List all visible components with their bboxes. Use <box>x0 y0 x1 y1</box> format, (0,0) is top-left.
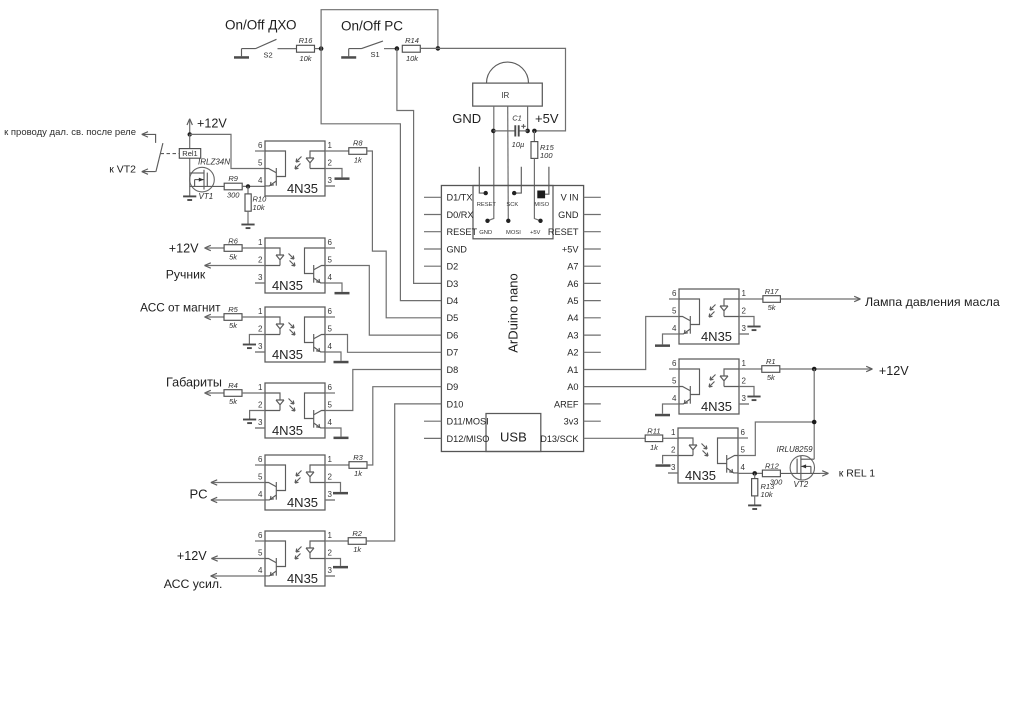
wire U5 pin5 out with arrow <box>211 482 265 484</box>
wire stub D12/MISO <box>424 437 441 439</box>
svg-text:АСС усил.: АСС усил. <box>164 577 223 591</box>
ICSP pin GND <box>479 219 492 236</box>
svg-text:IRLU8259: IRLU8259 <box>777 445 814 454</box>
wire IR leg2 to ICSP MOSI pin <box>507 106 510 221</box>
resistor R1 <box>762 357 780 382</box>
wire U7 pin3 stub <box>739 333 749 335</box>
ground U4 pin2 <box>243 420 256 424</box>
wire S2 branch to D4 <box>321 49 441 301</box>
svg-text:D3: D3 <box>447 279 459 289</box>
optocoupler U4 4N35 <box>255 383 333 438</box>
svg-text:RESET: RESET <box>477 202 497 208</box>
transistor VT2 IRLU8259 <box>777 445 821 489</box>
svg-text:RESET: RESET <box>447 227 478 237</box>
optocoupler U8 4N35 <box>672 359 749 414</box>
relay coil Rel1 <box>179 149 200 159</box>
wire U1 pin2 to ground <box>325 169 342 178</box>
wire U1 pin1 to R8 <box>325 150 349 152</box>
wire S1 branch to D3 <box>397 49 442 284</box>
wire R2 to D10 <box>366 404 441 541</box>
wire D13/SCK to R11 <box>584 437 646 439</box>
resistor R16 <box>297 36 315 63</box>
wire U5 pin1 to R3 <box>325 464 349 466</box>
wire arrow to R5 <box>205 316 225 318</box>
svg-text:D7: D7 <box>447 348 459 358</box>
svg-text:Ручник: Ручник <box>166 268 206 282</box>
optocoupler U2 4N35 <box>255 238 333 293</box>
wire U4 pin2 to ground <box>250 411 265 420</box>
wire S2 to R16 <box>278 48 297 50</box>
wire stub A5 <box>584 300 601 302</box>
ground U5 pin2 <box>333 492 348 495</box>
wire R9 to opto U1 pin4 <box>242 185 265 187</box>
ground U4 pin4 <box>334 437 349 440</box>
svg-text:On/Off PC: On/Off PC <box>341 19 403 34</box>
svg-text:C1: C1 <box>512 114 522 123</box>
svg-text:АСС от магнит: АСС от магнит <box>140 301 221 315</box>
svg-text:D11/MOSI: D11/MOSI <box>447 417 489 427</box>
optocoupler U7 4N35 <box>672 289 749 344</box>
svg-text:USB: USB <box>500 430 527 445</box>
resistor R14 <box>402 36 420 63</box>
svg-text:IRLZ34N: IRLZ34N <box>198 158 230 167</box>
wire U3 pin3 stub <box>255 351 265 353</box>
svg-text:5k: 5k <box>229 397 238 406</box>
svg-text:10k: 10k <box>253 203 266 212</box>
wire U5 pin6 stub <box>255 464 265 466</box>
svg-text:RESET: RESET <box>548 227 579 237</box>
resistor R13 <box>752 473 775 505</box>
svg-text:S2: S2 <box>264 51 273 60</box>
wire U8 pin4 to ground <box>663 404 680 414</box>
ICSP pin RESET <box>477 167 497 208</box>
arrow to VT2 wire <box>142 169 156 174</box>
svg-text:R3: R3 <box>353 453 363 462</box>
wire R6 to U2 pin1 <box>242 247 265 249</box>
optocoupler U6 4N35 <box>258 531 335 586</box>
ICSP pin MISO <box>534 167 549 208</box>
svg-text:MOSI: MOSI <box>506 230 521 236</box>
wire R11 to U9 pin1 <box>663 437 678 439</box>
wire R1 to +12V arrow <box>780 368 872 370</box>
arrow to far-light wire <box>142 132 156 143</box>
svg-text:300: 300 <box>227 190 240 199</box>
svg-text:A4: A4 <box>567 313 578 323</box>
node C1/R15 <box>532 129 537 134</box>
ICSP pin MOSI <box>506 219 521 236</box>
wire U4 pin5 to D8 <box>325 370 441 411</box>
wire top rail S2 loop <box>321 10 438 49</box>
wire +12V rail down to VT2 drain <box>813 369 815 459</box>
node +12V junction <box>188 132 192 136</box>
svg-text:GND: GND <box>479 230 492 236</box>
wire R3 to D9 <box>367 387 441 465</box>
ground VT1 <box>183 196 196 200</box>
svg-text:D10: D10 <box>447 399 464 409</box>
svg-text:V IN: V IN <box>561 193 579 203</box>
wire +12V down through Rel1 to VT1 source/ground <box>189 134 191 195</box>
svg-text:D12/MISO: D12/MISO <box>447 434 490 444</box>
svg-text:D5: D5 <box>447 313 459 323</box>
svg-text:D0/RX: D0/RX <box>447 210 474 220</box>
wire stub AREF <box>584 403 601 405</box>
ground U8 pin4 <box>655 414 670 417</box>
wire stub A6 <box>584 282 601 284</box>
svg-text:VT2: VT2 <box>794 480 809 489</box>
wire stub D2 <box>424 265 441 267</box>
svg-text:A6: A6 <box>567 279 578 289</box>
wire U6 pin6 stub <box>255 540 265 542</box>
svg-text:S1: S1 <box>371 50 380 59</box>
ICSP pin +5V <box>530 219 543 236</box>
svg-text:R17: R17 <box>765 287 780 296</box>
svg-text:1k: 1k <box>353 545 362 554</box>
wire U5 pin2 to ground <box>325 483 341 492</box>
wire U3 pin6 stub <box>325 316 335 318</box>
svg-text:A7: A7 <box>567 262 578 272</box>
wire U3 pin5 to D7 <box>325 335 441 353</box>
wire stub V IN <box>584 196 601 198</box>
resistor R5 <box>224 305 242 330</box>
svg-text:10k: 10k <box>299 54 312 63</box>
optocoupler U1 4N35 <box>258 141 335 196</box>
node VT2 rail / U9 pin5 <box>812 420 817 425</box>
wire U7 pin4 to ground <box>663 334 680 344</box>
capacitor C1 <box>493 114 527 149</box>
resistor R2 <box>348 529 366 554</box>
svg-text:5k: 5k <box>767 373 776 382</box>
svg-text:R11: R11 <box>647 426 660 435</box>
wire R16 to node <box>315 48 322 50</box>
svg-text:MISO: MISO <box>534 202 549 208</box>
wire R8 to D5 <box>367 151 442 318</box>
ICSP header box <box>473 186 553 239</box>
svg-text:к REL 1: к REL 1 <box>839 467 875 479</box>
svg-text:GND: GND <box>447 244 468 254</box>
optocoupler U9 4N35 <box>668 428 746 483</box>
ICSP pin SCK <box>506 167 521 208</box>
wire U1 pin3 stub <box>325 185 335 187</box>
wire A0 to U8 pin5 <box>584 386 679 388</box>
wire stub RESET <box>424 231 441 233</box>
svg-text:SCK: SCK <box>506 202 518 208</box>
svg-text:R12: R12 <box>765 461 780 470</box>
wire U8 pin1 to R1 <box>739 368 762 370</box>
wire U9 pin6 stub <box>738 437 748 439</box>
wire stub A3 <box>584 334 601 336</box>
resistor R3 <box>349 453 367 478</box>
svg-text:Лампа давления масла: Лампа давления масла <box>865 295 1000 309</box>
wire A1 to U7 pin5 <box>584 317 679 370</box>
ground U8 pin2 <box>747 397 760 401</box>
svg-text:D2: D2 <box>447 262 459 272</box>
ground U6 pin2 <box>333 566 348 569</box>
wire stub D11/MOSI <box>424 420 441 422</box>
svg-text:R9: R9 <box>228 174 238 183</box>
ground U3 pin4 <box>334 361 349 364</box>
wire arrow to R4 <box>205 392 225 394</box>
svg-text:+12V: +12V <box>169 241 199 255</box>
svg-text:R4: R4 <box>228 381 238 390</box>
svg-text:R2: R2 <box>352 529 362 538</box>
wire U5 pin3 stub <box>325 499 335 501</box>
wire U9 pin3 stub <box>668 472 678 474</box>
svg-text:+12V: +12V <box>177 549 207 563</box>
ground U7 pin2 <box>747 327 760 331</box>
node S1 junction <box>395 46 400 51</box>
wire U2 pin6 stub <box>325 247 335 249</box>
wire U2 pin3 stub <box>255 282 265 284</box>
wire stub A2 <box>584 351 601 353</box>
svg-text:10µ: 10µ <box>512 140 525 149</box>
wire U8 pin3 stub <box>739 403 749 405</box>
resistor R12 <box>762 461 783 486</box>
wire stub GND <box>584 214 601 216</box>
resistor R11 <box>645 426 663 452</box>
wire VT2 source to REL arrow <box>820 472 828 474</box>
svg-text:1k: 1k <box>354 155 363 164</box>
ground U7 pin4 <box>655 344 670 347</box>
ground U1 pin2 <box>335 177 350 180</box>
ground U9 pin2 <box>656 464 671 467</box>
wire U2 pin5 to D6 <box>325 266 441 336</box>
wire R15 to ICSP +5V pin <box>534 158 540 220</box>
resistor R8 <box>349 139 367 165</box>
svg-text:+5V: +5V <box>562 244 579 254</box>
svg-text:D4: D4 <box>447 296 459 306</box>
svg-text:10k: 10k <box>406 54 419 63</box>
wire stub A7 <box>584 265 601 267</box>
wire R5 to U3 pin1 <box>242 316 265 318</box>
node IR +5V <box>525 129 530 134</box>
svg-text:VT1: VT1 <box>199 192 214 201</box>
svg-text:AREF: AREF <box>554 399 579 409</box>
svg-text:ArDuino nano: ArDuino nano <box>506 273 521 353</box>
resistor R6 <box>224 236 242 261</box>
wire U8 pin2 to ground <box>739 387 754 397</box>
op-amp U-Arduino nano main box <box>441 186 583 452</box>
wire U1 pin6 stub <box>255 150 265 152</box>
svg-text:A5: A5 <box>567 296 578 306</box>
wire U6 pin4 out with arrow <box>211 575 265 577</box>
wire stub +5V <box>584 248 601 250</box>
svg-text:R16: R16 <box>299 36 314 45</box>
svg-text:R14: R14 <box>405 36 419 45</box>
optocoupler U5 4N35 <box>258 455 335 510</box>
ground R10 <box>241 225 254 229</box>
svg-text:5k: 5k <box>229 321 238 330</box>
wire +5V rail to C1 node <box>438 48 566 130</box>
svg-text:+5V: +5V <box>530 230 541 236</box>
node S2/R16 junction <box>319 46 324 51</box>
svg-text:5k: 5k <box>229 252 238 261</box>
arrow +12V input U2 <box>205 245 211 250</box>
wire U5 pin4 out with arrow <box>211 499 265 501</box>
svg-text:к проводу дал. св. после реле: к проводу дал. св. после реле <box>4 127 136 138</box>
wire IR leg1 to ICSP GND pin <box>488 131 494 221</box>
arrow ACC input U3 <box>205 314 211 319</box>
wire arrow to R6 <box>205 247 225 249</box>
svg-text:D13/SCK: D13/SCK <box>540 434 579 444</box>
wire S1 to node <box>384 48 397 50</box>
svg-text:5k: 5k <box>768 303 777 312</box>
wire U9 pin5 to +12V rail <box>738 422 814 456</box>
wire IR leg1 GND <box>493 106 495 131</box>
power +12V arrow top left <box>187 117 227 135</box>
IR receiver dome <box>487 62 529 83</box>
switch S2 <box>234 39 277 59</box>
svg-text:D8: D8 <box>447 365 459 375</box>
wire stub D0/RX <box>424 214 441 216</box>
svg-text:GND: GND <box>452 111 481 126</box>
node rail/R14 junction <box>436 46 441 51</box>
wire Ruchnik to U2 pin2 with arrow <box>205 265 266 267</box>
optocoupler U3 4N35 <box>255 307 333 362</box>
wire stub GND <box>424 248 441 250</box>
wire IR leg3 +5V <box>527 106 529 131</box>
wire R14 to rail node <box>420 47 438 49</box>
ground R13 <box>748 505 761 509</box>
wire U7 pin6 stub <box>669 298 679 300</box>
wire U6 pin3 stub <box>325 575 335 577</box>
svg-text:Rel1: Rel1 <box>182 149 197 158</box>
svg-text:3v3: 3v3 <box>564 417 579 427</box>
switch S1 <box>341 41 383 59</box>
ground U3 pin2 <box>243 345 256 349</box>
svg-text:A1: A1 <box>567 365 578 375</box>
wire stub RESET <box>584 231 601 233</box>
wire U6 pin5 out with arrow <box>211 558 265 560</box>
wire stub D1/TX <box>424 196 441 198</box>
svg-text:R8: R8 <box>353 139 363 148</box>
resistor R10 <box>245 186 267 224</box>
resistor R4 <box>224 381 242 406</box>
svg-text:A2: A2 <box>567 348 578 358</box>
wire U7 pin1 to R17 <box>739 298 763 300</box>
wire +12V to opto U1 pin5 <box>190 134 265 168</box>
svg-text:к VT2: к VT2 <box>109 164 136 176</box>
dashed linkage to Rel1 <box>161 153 180 155</box>
wire U6 pin2 to ground <box>325 559 341 566</box>
svg-text:D1/TX: D1/TX <box>447 193 473 203</box>
svg-text:Габариты: Габариты <box>166 376 222 390</box>
wire U4 pin6 stub <box>325 392 335 394</box>
wire stub A4 <box>584 317 601 319</box>
svg-text:On/Off ДХО: On/Off ДХО <box>225 17 296 32</box>
resistor R17 <box>763 287 781 312</box>
svg-text:10k: 10k <box>761 490 774 499</box>
wire U2 pin4 to ground <box>325 283 342 292</box>
node GND/C1 <box>491 129 496 134</box>
wire U4 pin4 to ground <box>325 428 341 437</box>
arrow Gabarity input U4 <box>205 390 211 395</box>
wire U9 pin2 to ground <box>663 456 678 464</box>
svg-text:A3: A3 <box>567 331 578 341</box>
svg-text:D6: D6 <box>447 331 459 341</box>
svg-text:R6: R6 <box>228 236 238 245</box>
resistor R15 <box>531 131 555 160</box>
svg-text:100: 100 <box>540 151 553 160</box>
wire R17 to lamp output arrow <box>780 298 859 300</box>
transistor VT1 IRLZ34N <box>190 158 231 201</box>
ground U2 pin4 <box>335 292 350 295</box>
node R12/R13 <box>752 471 757 476</box>
wire R4 to U4 pin1 <box>242 392 265 394</box>
svg-text:GND: GND <box>558 210 579 220</box>
svg-text:R5: R5 <box>228 305 238 314</box>
IR receiver box <box>473 83 543 106</box>
svg-text:+12V: +12V <box>879 364 909 378</box>
svg-text:1k: 1k <box>650 443 659 452</box>
wire U8 pin6 stub <box>669 368 679 370</box>
wire U4 pin3 stub <box>255 427 265 429</box>
svg-text:+5V: +5V <box>535 111 559 126</box>
switch relay contact blade <box>156 143 163 172</box>
resistor R9 <box>224 174 242 199</box>
USB connector box <box>486 414 541 452</box>
wire U3 pin4 to ground <box>325 352 341 361</box>
wire U9 pin4 to R12 <box>738 472 762 474</box>
svg-text:R1: R1 <box>766 357 776 366</box>
svg-text:+12V: +12V <box>197 117 227 131</box>
svg-text:IR: IR <box>501 91 509 100</box>
wire U6 pin1 to R2 <box>325 540 348 542</box>
wire U7 pin2 to ground <box>739 317 754 327</box>
svg-text:PC: PC <box>190 487 208 502</box>
node R1 line / VT2 rail <box>812 367 817 372</box>
wire U3 pin2 to ground <box>249 335 265 345</box>
svg-text:1k: 1k <box>354 469 363 478</box>
wire stub 3v3 <box>584 420 601 422</box>
svg-text:D9: D9 <box>447 382 459 392</box>
node R9/R10 <box>246 184 250 188</box>
svg-text:A0: A0 <box>567 382 578 392</box>
